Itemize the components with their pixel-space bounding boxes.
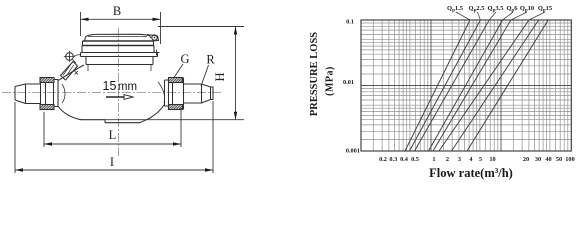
svg-text:0.001: 0.001 — [346, 148, 360, 155]
seal tag — [61, 62, 78, 81]
right pipe taper — [202, 84, 211, 103]
svg-text:0.4: 0.4 — [400, 156, 409, 163]
dimension lines — [15, 12, 244, 173]
lid dome — [85, 34, 152, 41]
lid dome inner line — [88, 36, 147, 38]
dim B line — [81, 18, 161, 20]
dim H line — [235, 27, 237, 120]
right pipe tip band — [211, 87, 214, 101]
svg-text:mm: mm — [118, 81, 137, 93]
svg-text:PRESSURE LOSS: PRESSURE LOSS — [309, 32, 320, 116]
right nut knurl top — [169, 78, 183, 83]
svg-text:2: 2 — [446, 156, 449, 163]
lid flange — [81, 53, 158, 57]
curves Qp1.5..Qp15 — [405, 20, 548, 151]
svg-text:3: 3 — [458, 156, 461, 163]
body neck inner lines — [88, 65, 151, 71]
arrowheads — [81, 18, 161, 21]
body outline — [58, 65, 165, 123]
right pipe large cylinder — [184, 84, 202, 103]
lid band upper — [83, 40, 154, 42]
body inner curves — [62, 82, 165, 103]
dim B extension lines — [81, 12, 161, 44]
svg-text:0.2: 0.2 — [379, 156, 387, 163]
right nut knurl bottom — [169, 105, 183, 110]
svg-text:20: 20 — [523, 156, 529, 163]
svg-text:15: 15 — [103, 79, 117, 93]
seal circle — [66, 53, 74, 61]
right washer — [165, 80, 169, 106]
svg-text:50: 50 — [556, 156, 562, 163]
dim I line — [15, 169, 213, 171]
leader G — [174, 64, 183, 78]
svg-text:(MPa): (MPa) — [325, 66, 336, 96]
centerline horizontal — [2, 92, 222, 94]
lid hinge bracket — [147, 35, 159, 42]
svg-text:G: G — [180, 52, 189, 66]
label leader lines — [456, 12, 545, 20]
flow arrow — [106, 96, 124, 98]
svg-text:0.01: 0.01 — [343, 79, 354, 86]
lid screw cross right — [154, 50, 160, 56]
left pipe large cylinder — [26, 84, 41, 104]
lid hinge pin — [152, 35, 157, 40]
lid neck — [86, 57, 153, 65]
leader R — [201, 65, 209, 86]
dim H extension lines — [105, 27, 244, 120]
svg-text:10: 10 — [489, 156, 495, 163]
grid minor — [361, 20, 571, 151]
seal tag x mark — [75, 71, 79, 75]
seal wire — [73, 55, 81, 64]
lid band lower — [82, 45, 154, 47]
svg-text:0.5: 0.5 — [411, 156, 419, 163]
svg-text:B: B — [113, 4, 121, 18]
svg-text:H: H — [213, 72, 227, 81]
svg-text:R: R — [206, 53, 215, 67]
right coupling nut — [169, 78, 184, 110]
svg-text:0.3: 0.3 — [389, 156, 397, 163]
svg-text:1: 1 — [432, 156, 435, 163]
svg-text:100: 100 — [565, 156, 574, 163]
plot border — [361, 20, 571, 151]
left washer — [54, 80, 59, 107]
svg-text:40: 40 — [545, 156, 551, 163]
left pipe taper — [15, 84, 26, 104]
left nut knurl bottom — [40, 105, 54, 110]
svg-text:0.1: 0.1 — [346, 19, 354, 26]
left nut knurl top — [40, 78, 54, 83]
svg-text:30: 30 — [535, 156, 541, 163]
svg-text:5: 5 — [479, 156, 482, 163]
left pipe tip edge — [14, 87, 16, 101]
svg-text:I: I — [110, 155, 114, 169]
grid major — [361, 20, 571, 151]
svg-text:L: L — [109, 128, 117, 142]
dim I extension lines — [15, 101, 213, 173]
svg-text:Flow rate(m3/h): Flow rate(m3/h) — [429, 166, 513, 180]
dim L line — [44, 143, 181, 145]
dim L extension lines — [44, 108, 181, 147]
centerline vertical — [118, 28, 120, 156]
left coupling nut — [41, 78, 54, 110]
